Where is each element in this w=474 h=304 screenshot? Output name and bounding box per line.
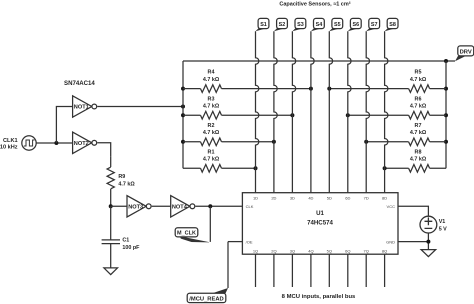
svg-text:Capacitive Sensors, ≈1 cm²: Capacitive Sensors, ≈1 cm²	[279, 1, 350, 8]
resistor R7 4.7 kOhm	[366, 123, 446, 146]
capacitor C1 100 pF	[102, 237, 141, 251]
wire right bus vertical	[445, 61, 447, 168]
pin label 1Q	[253, 249, 258, 254]
svg-text:/OE: /OE	[246, 239, 253, 244]
svg-text:NOT4: NOT4	[172, 205, 188, 211]
svg-text:GND: GND	[386, 239, 395, 244]
net flag DRV	[455, 46, 474, 61]
pin label 2D	[271, 195, 276, 200]
svg-text:SN74AC14: SN74AC14	[64, 80, 95, 87]
svg-text:8 MCU inputs, parallel bus: 8 MCU inputs, parallel bus	[282, 294, 356, 300]
label SN74AC14	[64, 80, 95, 87]
junction M_CLK tap	[208, 204, 212, 208]
svg-text:U1: U1	[316, 210, 324, 217]
svg-text:4Q: 4Q	[308, 249, 313, 254]
svg-text:8D: 8D	[382, 195, 387, 200]
pin label 6Q	[345, 249, 350, 254]
svg-text:S7: S7	[371, 22, 378, 28]
svg-text:R8: R8	[415, 149, 422, 155]
wire NOT1 output to left bus	[97, 106, 183, 108]
net flag S7	[366, 18, 379, 31]
svg-text:S2: S2	[279, 22, 286, 28]
svg-text:2D: 2D	[271, 195, 276, 200]
wire sensor line S8 vertical	[385, 31, 388, 193]
junction NOT1 output at bus	[181, 105, 185, 109]
svg-text:S1: S1	[260, 22, 267, 28]
pin label /OE	[246, 239, 253, 244]
svg-text:CLK1: CLK1	[3, 138, 18, 144]
junction right bus row y=141.8	[444, 140, 448, 144]
net flag M_CLK	[175, 228, 210, 243]
svg-text:R7: R7	[415, 123, 422, 129]
resistor R3 4.7 kOhm	[183, 96, 292, 119]
IC U1 74HC574 body	[242, 193, 398, 255]
svg-text:R2: R2	[208, 123, 215, 129]
junction right bus row y=88.6	[444, 87, 448, 91]
net flag /MCU_READ	[187, 288, 228, 303]
wire sensor line S1 vertical	[256, 31, 259, 193]
net flag S1	[256, 18, 269, 31]
svg-text:S5: S5	[334, 22, 341, 28]
wire C1 to ground	[110, 244, 112, 268]
svg-text:3D: 3D	[290, 195, 295, 200]
svg-text:S8: S8	[389, 22, 396, 28]
net flag S6	[348, 18, 361, 31]
svg-text:R5: R5	[415, 70, 422, 76]
svg-text:NOT2: NOT2	[74, 141, 89, 147]
wire node to NOT3 input	[111, 205, 127, 207]
inverter NOT4 (triangle body)	[171, 196, 195, 217]
wire Q1 output lead	[255, 254, 257, 287]
source V1 5 V	[420, 216, 447, 233]
svg-text:4.7 kΩ: 4.7 kΩ	[203, 77, 220, 83]
pin label GND	[386, 239, 395, 244]
pin label 8D	[382, 195, 387, 200]
svg-text:4.7 kΩ: 4.7 kΩ	[410, 130, 427, 136]
wire /OE pin down to /MCU_READ flag	[227, 242, 229, 288]
svg-text:4.7 kΩ: 4.7 kΩ	[203, 104, 220, 110]
pin label 3Q	[290, 249, 295, 254]
svg-text:V1: V1	[439, 219, 446, 225]
svg-text:S4: S4	[316, 22, 323, 28]
wire branch up to NOT1 input	[56, 107, 72, 144]
junction R6 to sensor line	[346, 113, 350, 117]
ground symbol below C1	[104, 268, 118, 275]
inverter NOT1 (triangle body)	[73, 96, 97, 117]
junction left bus row y=115.2	[181, 113, 185, 117]
pin label 4Q	[308, 249, 313, 254]
resistor R8 4.7 kOhm	[385, 149, 446, 172]
inverter NOT2 (triangle body)	[73, 132, 97, 153]
inverter NOT3 (triangle body)	[127, 196, 151, 217]
wire Q7 output lead	[365, 254, 367, 287]
svg-text:R6: R6	[415, 96, 422, 102]
svg-text:R9: R9	[118, 174, 125, 180]
resistor R2 4.7 kOhm	[183, 123, 274, 146]
svg-text:4.7 kΩ: 4.7 kΩ	[410, 157, 427, 163]
svg-text:4.7 kΩ: 4.7 kΩ	[118, 181, 135, 187]
wire Q8 output lead	[384, 254, 386, 287]
junction R1 to sensor line	[254, 166, 258, 170]
junction top right bus	[444, 59, 448, 63]
junction R3 to sensor line	[290, 113, 294, 117]
svg-text:DRV: DRV	[460, 49, 472, 55]
svg-text:4.7 kΩ: 4.7 kΩ	[410, 104, 427, 110]
pin label 8Q	[382, 249, 387, 254]
wire sensor line S5 vertical	[329, 31, 332, 193]
svg-text:7Q: 7Q	[364, 249, 369, 254]
junction left bus row y=88.6	[181, 87, 185, 91]
svg-text:5Q: 5Q	[327, 249, 332, 254]
svg-text:4D: 4D	[308, 195, 313, 200]
wire VCC to V1	[398, 206, 428, 216]
junction R4 to sensor line	[309, 87, 313, 91]
label 8 MCU inputs parallel bus	[282, 294, 356, 300]
junction at NOT3 input node	[109, 204, 113, 208]
svg-text:NOT1: NOT1	[74, 105, 89, 111]
svg-text:4.7 kΩ: 4.7 kΩ	[410, 77, 427, 83]
svg-text:8Q: 8Q	[382, 249, 387, 254]
wire Q4 output lead	[310, 254, 312, 287]
svg-text:4.7 kΩ: 4.7 kΩ	[203, 157, 220, 163]
svg-text:6Q: 6Q	[345, 249, 350, 254]
wire /OE stub	[228, 241, 242, 243]
net flag S4	[311, 18, 324, 31]
svg-text:2Q: 2Q	[271, 249, 276, 254]
pin label 2Q	[271, 249, 276, 254]
net flag S5	[329, 18, 342, 31]
svg-text:100 pF: 100 pF	[122, 245, 140, 251]
svg-text:S3: S3	[297, 22, 304, 28]
svg-text:5 V: 5 V	[439, 226, 447, 232]
pin label 7D	[364, 195, 369, 200]
svg-text:/MCU_READ: /MCU_READ	[189, 297, 223, 303]
resistor R4 4.7 kOhm	[183, 70, 311, 93]
svg-text:R3: R3	[208, 96, 215, 102]
pin label 7Q	[364, 249, 369, 254]
pin label 1D	[253, 195, 258, 200]
pin label VCC	[387, 204, 396, 209]
wire V1 bottom to GND lead	[398, 233, 428, 250]
wire CLK1 output to NOT2 input	[36, 142, 72, 144]
wire sensor line S4 vertical	[311, 31, 314, 193]
svg-text:4.7 kΩ: 4.7 kΩ	[203, 130, 220, 136]
wire sensor line S2 vertical	[274, 31, 277, 193]
resistor R1 4.7 kOhm	[183, 149, 256, 172]
wire left bus vertical	[182, 61, 184, 168]
ground symbol below V1	[421, 250, 436, 257]
wire node down to C1	[110, 206, 112, 240]
wire sensor line S6 vertical	[348, 31, 351, 193]
wire top drive line	[183, 60, 455, 62]
junction R8 to sensor line	[383, 166, 387, 170]
clock source CLK1 10 kHz	[0, 136, 36, 151]
wire NOT2 output down to R9	[97, 143, 110, 156]
svg-text:7D: 7D	[364, 195, 369, 200]
svg-text:1D: 1D	[253, 195, 258, 200]
svg-text:C1: C1	[122, 237, 129, 243]
svg-text:5D: 5D	[327, 195, 332, 200]
wire Q6 output lead	[347, 254, 349, 287]
junction R5 to sensor line	[327, 87, 331, 91]
junction R7 to sensor line	[364, 140, 368, 144]
svg-text:74HC574: 74HC574	[307, 219, 333, 226]
wire Q3 output lead	[291, 254, 293, 287]
resistor R9 4.7k vertical	[107, 156, 135, 206]
svg-text:R4: R4	[208, 70, 215, 76]
svg-text:1Q: 1Q	[253, 249, 258, 254]
wire sensor line S7 vertical	[366, 31, 369, 193]
pin label 5D	[327, 195, 332, 200]
junction right bus row y=115.2	[444, 113, 448, 117]
svg-text:R1: R1	[208, 149, 215, 155]
pin label 4D	[308, 195, 313, 200]
junction R2 to sensor line	[272, 140, 276, 144]
wire Q5 output lead	[328, 254, 330, 287]
net flag S3	[292, 18, 305, 31]
svg-text:6D: 6D	[345, 195, 350, 200]
pin label 5Q	[327, 249, 332, 254]
wire NOT3 output to NOT4 input	[152, 205, 171, 207]
pin label CLK	[246, 204, 254, 209]
pin label 6D	[345, 195, 350, 200]
svg-text:M_CLK: M_CLK	[177, 231, 196, 237]
resistor R6 4.7 kOhm	[348, 96, 446, 119]
wire NOT4 output to U1 CLK pin	[195, 205, 242, 207]
junction left bus row y=141.8	[181, 140, 185, 144]
pin label 3D	[290, 195, 295, 200]
svg-text:S6: S6	[353, 22, 360, 28]
title text	[279, 1, 350, 8]
junction V1 ground node	[426, 240, 430, 244]
svg-text:NOT3: NOT3	[128, 205, 143, 211]
junction at clock branch	[54, 141, 58, 145]
resistor R5 4.7 kOhm	[329, 70, 446, 93]
svg-text:3Q: 3Q	[290, 249, 295, 254]
net flag S8	[385, 18, 398, 31]
svg-text:CLK: CLK	[246, 204, 254, 209]
wire sensor line S3 vertical	[292, 31, 295, 193]
net flag S2	[274, 18, 288, 31]
wire Q2 output lead	[273, 254, 275, 287]
svg-text:VCC: VCC	[387, 204, 396, 209]
wire down to M_CLK flag	[209, 206, 211, 242]
svg-text:10 kHz: 10 kHz	[0, 145, 18, 151]
